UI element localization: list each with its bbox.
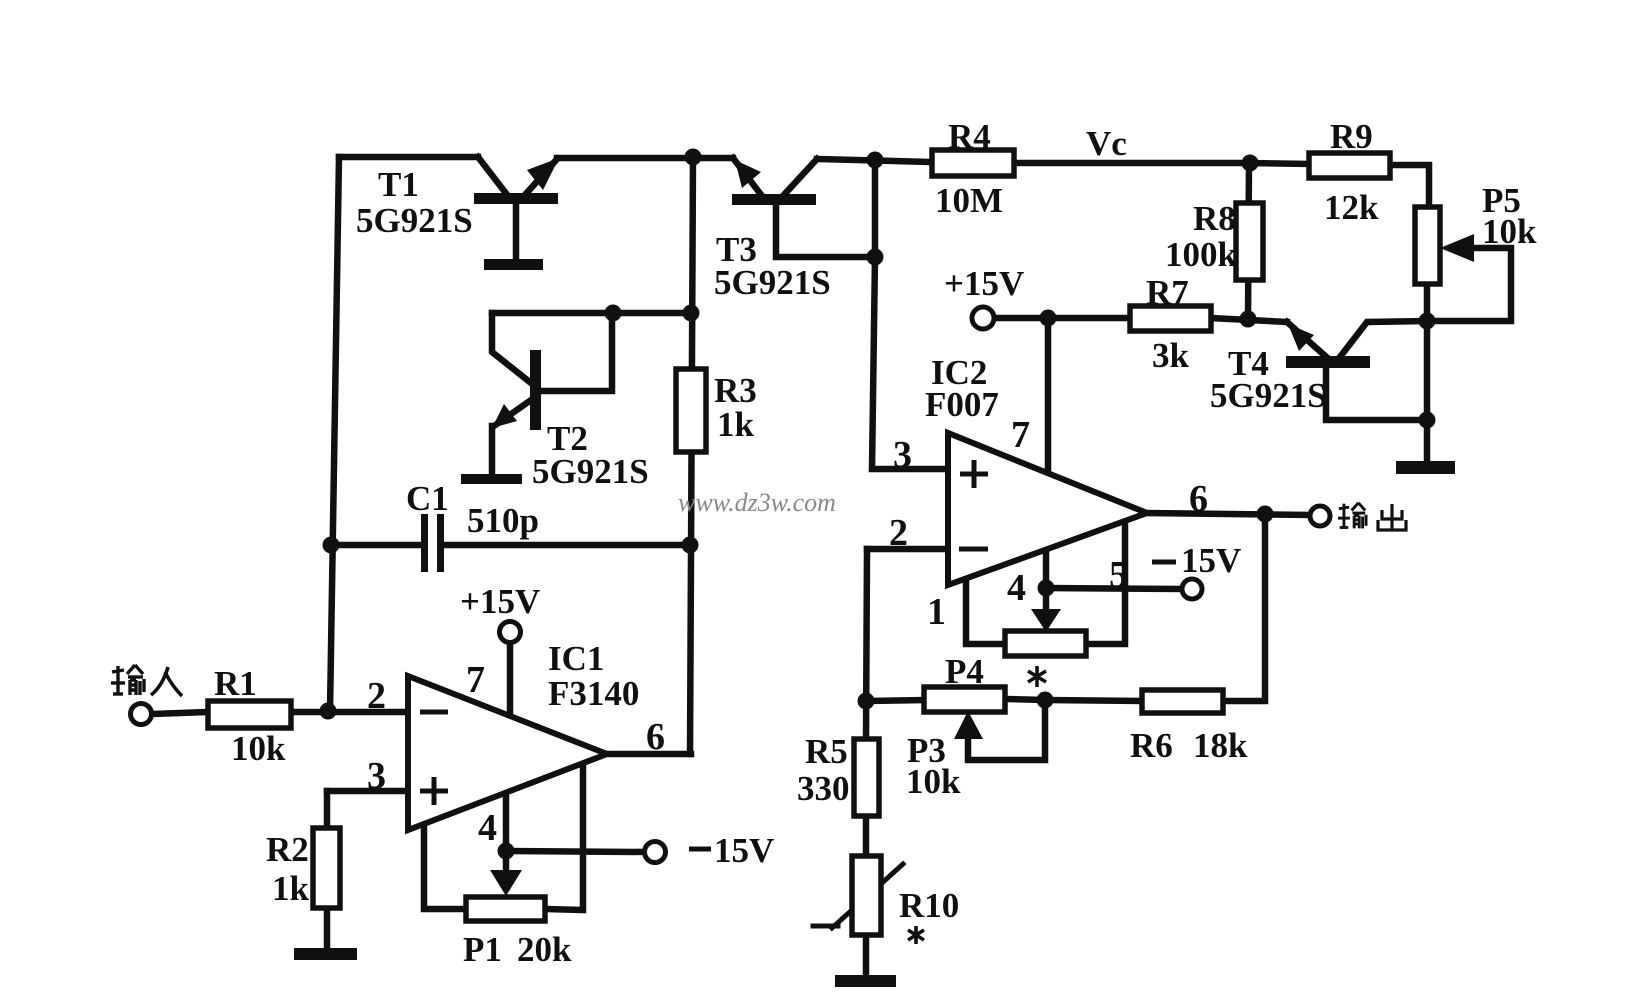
svg-text:5G921S: 5G921S [356,201,473,240]
svg-text:330: 330 [797,769,850,808]
svg-text:1k: 1k [717,405,755,444]
svg-text:C1: C1 [406,479,449,518]
svg-text:2: 2 [367,675,386,717]
svg-text:100k: 100k [1165,235,1238,274]
svg-text:P1: P1 [463,930,502,969]
svg-text:F007: F007 [925,385,999,424]
svg-text:R8: R8 [1193,199,1236,238]
svg-text:1k: 1k [272,869,310,908]
svg-text:T1: T1 [378,165,419,204]
svg-text:12k: 12k [1324,188,1379,227]
svg-text:1: 1 [927,591,946,633]
svg-text:R5: R5 [805,732,848,771]
svg-text:4: 4 [1007,567,1026,609]
svg-text:5G921S: 5G921S [1210,376,1327,415]
svg-text:15V: 15V [1181,541,1241,580]
svg-text:R9: R9 [1330,117,1373,156]
svg-text:+15V: +15V [460,582,540,621]
svg-text:6: 6 [646,716,665,758]
svg-text:+15V: +15V [944,264,1024,303]
svg-text:R4: R4 [948,117,991,156]
svg-text:15V: 15V [714,831,774,870]
svg-text:R1: R1 [214,664,257,703]
svg-text:10M: 10M [935,181,1003,220]
svg-text:3: 3 [893,434,912,476]
svg-text:R10: R10 [899,886,959,925]
svg-text:2: 2 [889,512,908,554]
svg-text:P4: P4 [945,652,984,691]
svg-text:www.dz3w.com: www.dz3w.com [678,488,836,517]
svg-text:20k: 20k [517,930,572,969]
svg-text:5G921S: 5G921S [532,452,649,491]
svg-text:6: 6 [1189,478,1208,520]
svg-text:10k: 10k [906,762,961,801]
svg-text:18k: 18k [1193,726,1248,765]
svg-text:3k: 3k [1152,336,1190,375]
svg-text:10k: 10k [231,729,286,768]
svg-text:510p: 510p [467,501,539,540]
svg-text:10k: 10k [1482,212,1537,251]
svg-text:F3140: F3140 [548,674,639,713]
svg-text:5: 5 [1109,554,1128,596]
svg-text:R6: R6 [1130,726,1173,765]
svg-text:3: 3 [367,755,386,797]
svg-text:7: 7 [466,659,485,701]
svg-text:5G921S: 5G921S [714,263,831,302]
svg-text:4: 4 [478,807,497,849]
svg-text:R2: R2 [266,830,309,869]
svg-text:IC1: IC1 [548,639,604,678]
svg-text:Vc: Vc [1086,124,1127,163]
svg-text:R7: R7 [1146,273,1189,312]
svg-text:7: 7 [1011,414,1030,456]
